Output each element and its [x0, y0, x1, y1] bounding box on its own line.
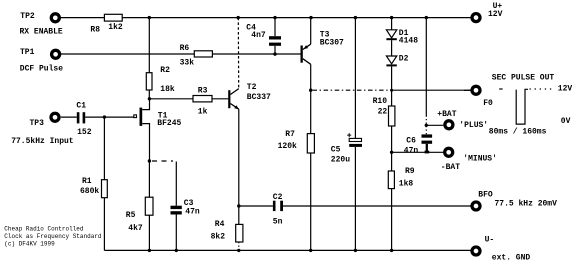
wire TP3 to C1: [61, 116, 77, 118]
wire C4 bottom: [274, 46, 276, 54]
transistor T3 BC307 PNP: [301, 44, 311, 64]
resistor R8 1k2: [104, 14, 122, 21]
wire MINUS line from R9 node: [392, 151, 444, 153]
svg-text:R6: R6: [180, 44, 190, 53]
svg-text:BFO: BFO: [478, 191, 493, 200]
resistor R1 680k: [102, 180, 108, 198]
svg-text:77.5 kHz 20mV: 77.5 kHz 20mV: [495, 199, 558, 208]
junction rail at R7: [309, 249, 312, 252]
svg-text:18k: 18k: [160, 85, 175, 94]
svg-text:TP2: TP2: [20, 12, 35, 21]
terminal U- ext GND: [472, 247, 480, 255]
wire DCF pulse line TP1 to T3 base: [61, 53, 301, 55]
svg-text:R5: R5: [126, 211, 136, 220]
wire F0 stub to terminal: [464, 89, 471, 91]
svg-text:TP3: TP3: [30, 119, 45, 128]
svg-text:4k7: 4k7: [128, 224, 143, 233]
wire D2 to R10: [391, 66, 393, 106]
wire R1 top: [103, 117, 105, 180]
wire diode branch top: [391, 18, 393, 30]
svg-text:C2: C2: [273, 193, 283, 202]
svg-text:C5: C5: [331, 146, 341, 155]
svg-text:5n: 5n: [273, 217, 283, 226]
terminal F0: [472, 86, 480, 94]
svg-text:C1: C1: [76, 102, 86, 111]
terminal PLUS +BAT: [445, 121, 453, 129]
wire R5 bottom: [148, 215, 150, 250]
svg-text:1k: 1k: [198, 108, 208, 117]
svg-text:BC307: BC307: [320, 38, 344, 47]
wire T2 emitter line to C2: [239, 205, 273, 207]
capacitor C6 47n: [422, 134, 433, 153]
junction T3 collector dash-dot: [309, 89, 312, 92]
svg-text:R4: R4: [215, 220, 225, 229]
wire dashed source to C3: [152, 160, 173, 162]
svg-text:1k8: 1k8: [399, 179, 414, 188]
svg-text:1k2: 1k2: [108, 23, 123, 32]
capacitor C4 4n7: [269, 36, 281, 46]
svg-text:8k2: 8k2: [211, 232, 226, 241]
wire C3 bottom: [175, 215, 177, 251]
junction MINUS wire at R9: [390, 151, 393, 154]
svg-text:R1: R1: [82, 177, 92, 186]
wire to PLUS terminal: [426, 124, 443, 126]
svg-text:22: 22: [378, 108, 388, 117]
waveform sec pulse out: [499, 89, 552, 124]
wire R10 to R9: [391, 126, 393, 171]
wire bottom ground rail: [104, 249, 470, 251]
junction top rail at C4: [273, 16, 276, 19]
svg-text:-BAT: -BAT: [441, 163, 460, 172]
svg-text:C6: C6: [406, 137, 416, 146]
resistor R7 120k: [307, 134, 314, 153]
svg-text:Cheap Radio Controlled: Cheap Radio Controlled: [4, 226, 84, 233]
junction +BAT wire: [425, 124, 428, 127]
junction rail at R4: [237, 249, 240, 252]
wire R2 top branch: [148, 18, 150, 73]
junction top rail at T3: [309, 16, 312, 19]
svg-text:+BAT: +BAT: [437, 110, 456, 119]
svg-text:R8: R8: [90, 26, 100, 35]
junction rail at C5: [354, 249, 357, 252]
wire R1 bottom: [103, 198, 105, 251]
svg-text:12V: 12V: [558, 85, 573, 94]
resistor R3 1k: [193, 96, 212, 102]
wire F0 output: [392, 89, 471, 91]
wire R5 top: [148, 161, 150, 197]
resistor R5 4k7: [145, 197, 153, 215]
svg-text:R10: R10: [373, 97, 388, 106]
svg-text:DCF Pulse: DCF Pulse: [20, 64, 63, 73]
svg-text:680k: 680k: [80, 187, 99, 196]
svg-text:152: 152: [77, 128, 92, 137]
svg-text:'MINUS': 'MINUS': [463, 155, 497, 164]
svg-text:SEC PULSE OUT: SEC PULSE OUT: [492, 73, 555, 82]
resistor R4 8k2: [236, 224, 243, 242]
svg-text:120k: 120k: [278, 142, 297, 151]
transistor T2 BC337 NPN: [228, 89, 239, 110]
capacitor C2 5n: [273, 201, 283, 211]
svg-text:33k: 33k: [180, 59, 195, 68]
capacitor C3 47n: [171, 206, 182, 215]
wire T2 emitter down: [238, 109, 240, 206]
wire R4 bottom dotted: [238, 242, 240, 250]
svg-text:77.5kHz Input: 77.5kHz Input: [11, 137, 74, 146]
svg-text:0V: 0V: [561, 117, 571, 126]
svg-text:R9: R9: [405, 167, 415, 176]
resistor R9 1k8: [388, 171, 394, 189]
svg-text:80ms / 160ms: 80ms / 160ms: [489, 127, 547, 136]
svg-text:U-: U-: [485, 236, 495, 245]
svg-text:R3: R3: [198, 86, 208, 95]
svg-text:(c) DF4KV 1999: (c) DF4KV 1999: [4, 240, 55, 247]
resistor R2 18k: [146, 73, 152, 90]
svg-text:47n: 47n: [404, 146, 419, 155]
wire dash-dot F0 link: [313, 89, 392, 91]
junction rail at C3: [175, 249, 178, 252]
wire node to R3 to T2 base: [149, 98, 228, 100]
svg-text:Clock as Frequency Standard: Clock as Frequency Standard: [4, 233, 102, 240]
svg-text:F0: F0: [483, 99, 493, 108]
junction rail at R5: [148, 249, 151, 252]
wire C4 top: [274, 18, 276, 37]
svg-text:12V: 12V: [488, 10, 503, 19]
junction rail at R9: [390, 249, 393, 252]
svg-text:47n: 47n: [185, 207, 200, 216]
svg-text:4148: 4148: [399, 37, 418, 46]
junction top rail at D1: [390, 16, 393, 19]
wire T1 drain: [142, 99, 149, 110]
wire T3 emitter up: [310, 18, 312, 45]
wire R9 bottom to rail: [391, 189, 393, 251]
svg-text:R2: R2: [160, 66, 170, 75]
capacitor C1 152: [77, 112, 85, 123]
transistor T1 BF245 JFET: [134, 108, 142, 126]
svg-text:'PLUS': 'PLUS': [459, 121, 488, 130]
capacitor C5 220u electrolytic: [347, 133, 362, 147]
terminal TP2: [51, 14, 59, 22]
junction T1 source node: [148, 159, 151, 162]
wire C6 bottom lead: [426, 144, 428, 152]
wire C3 top drop: [175, 162, 177, 206]
wire T1 gate: [85, 116, 134, 118]
junction top rail at R2: [148, 16, 151, 19]
junction C1-R1-gate node: [103, 115, 106, 118]
terminal BFO: [472, 202, 480, 210]
wire D1 to D2: [391, 40, 393, 56]
svg-text:220u: 220u: [331, 156, 350, 165]
svg-text:RX ENABLE: RX ENABLE: [20, 28, 63, 37]
wire T3 collector down to R7: [310, 64, 312, 133]
wire R2 bottom to node: [148, 90, 150, 99]
terminal MINUS -BAT: [445, 148, 453, 156]
wire T2 collector dashed to top rail: [237, 18, 239, 89]
resistor R6 33k: [194, 51, 212, 57]
wire R4 top: [238, 206, 240, 224]
junction R2-R3-T1 node: [148, 97, 151, 100]
terminal U+ 12V: [472, 14, 480, 22]
resistor R10 22: [389, 106, 395, 126]
junction D2-R10 F0 node: [390, 89, 393, 92]
wire R7 bottom to rail: [310, 153, 312, 250]
diode D2: [386, 56, 396, 66]
terminal TP3: [51, 113, 59, 121]
svg-text:BF245: BF245: [157, 119, 181, 128]
wire T1 source down: [142, 124, 149, 161]
wire top +12V rail: [61, 17, 471, 19]
junction C4 to DCF line: [273, 52, 276, 55]
svg-text:T2: T2: [247, 83, 257, 92]
wire +BAT branch solid: [425, 18, 427, 116]
svg-text:R7: R7: [285, 130, 295, 139]
wire C5 top: [354, 18, 356, 139]
wire C2 to BFO terminal: [283, 205, 471, 207]
junction top rail at C5: [354, 16, 357, 19]
junction top rail at +BAT: [425, 16, 428, 19]
svg-text:ext. GND: ext. GND: [492, 254, 531, 263]
wire +BAT branch dotted: [425, 116, 427, 135]
junction emitter line at C2: [237, 204, 240, 207]
diode D1 4148: [386, 30, 396, 40]
terminal TP1: [52, 50, 60, 58]
svg-text:BC337: BC337: [247, 93, 271, 102]
svg-text:4n7: 4n7: [251, 31, 266, 40]
svg-text:D2: D2: [399, 54, 409, 63]
wire C5 bottom: [354, 147, 356, 251]
junction top rail at T2 dashed: [237, 16, 240, 19]
svg-text:TP1: TP1: [20, 48, 35, 57]
